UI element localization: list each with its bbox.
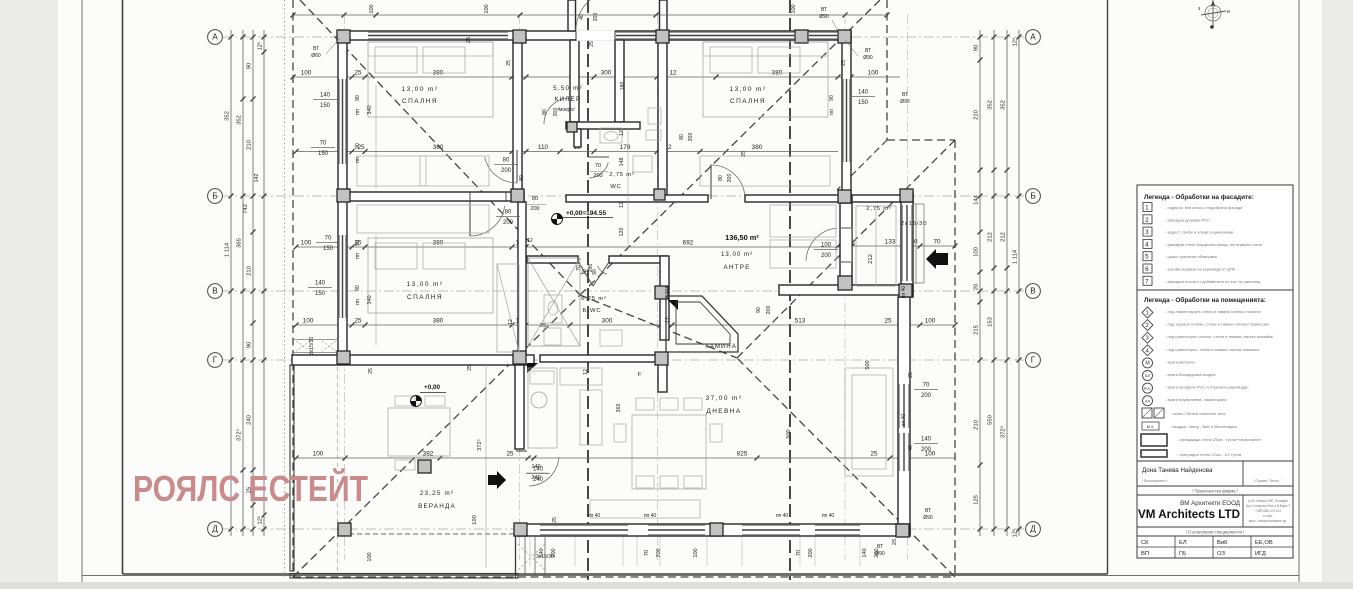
svg-text:12⁵: 12⁵	[257, 41, 264, 51]
svg-text:/ Проектантска фирма /: / Проектантска фирма /	[1192, 489, 1239, 494]
left dimension chains	[225, 30, 267, 536]
svg-text:Г: Г	[213, 356, 218, 365]
svg-text:100: 100	[791, 4, 797, 13]
section line vertical 2	[789, 0, 791, 580]
svg-text:340: 340	[367, 105, 373, 114]
svg-text:5,50 m²: 5,50 m²	[553, 85, 583, 92]
svg-text:140: 140	[531, 464, 540, 470]
level marker veranda	[411, 396, 422, 407]
roof ridge	[580, 295, 737, 358]
veranda inner dashed line	[337, 367, 339, 571]
svg-text:80: 80	[718, 175, 724, 181]
svg-text:пп 40: пп 40	[776, 513, 789, 519]
window living east 1	[899, 384, 909, 428]
svg-text:- врата алуминиева, ламинирана: - врата алуминиева, ламинирана	[1165, 397, 1227, 402]
svg-text:200: 200	[874, 548, 880, 557]
svg-text:+0,00: +0,00	[424, 384, 440, 391]
window bedroom2 top	[668, 32, 794, 39]
svg-text:В: В	[212, 287, 218, 296]
svg-text:СПАЛНЯ: СПАЛНЯ	[407, 294, 443, 301]
sheet bottom border	[82, 575, 1299, 577]
svg-text:СК: СК	[1141, 540, 1149, 546]
svg-text:380: 380	[752, 144, 763, 151]
column B4	[900, 189, 913, 202]
wall kiler left	[570, 40, 579, 122]
svg-text:13,00 m²: 13,00 m²	[721, 251, 753, 258]
door entrance top	[576, 0, 615, 30]
dining table living	[632, 415, 706, 489]
bottom grey band	[0, 582, 1353, 589]
grid bubble Г left	[208, 353, 223, 368]
door bedroom3	[470, 206, 505, 236]
right dimension chains	[974, 30, 1022, 538]
svg-text:1: 1	[1145, 205, 1150, 212]
svg-text:ВТ: ВТ	[821, 7, 827, 13]
grid centerlines horizontal	[222, 37, 1026, 529]
svg-text:- означ. Пятник осветено тяло: - означ. Пятник осветено тяло	[1170, 411, 1227, 416]
title block specialists caption	[1137, 527, 1293, 536]
column A1	[337, 30, 350, 43]
svg-text:- под теракол плочки, стени и: - под теракол плочки, стени и тавани /ла…	[1165, 322, 1269, 327]
svg-text:80: 80	[532, 196, 538, 202]
svg-text:70: 70	[644, 550, 650, 556]
svg-text:70: 70	[923, 383, 930, 389]
label bedroom2	[730, 86, 767, 105]
label veranda	[418, 490, 456, 510]
wall row V right horizontal	[779, 285, 913, 295]
window living south 4	[815, 525, 860, 535]
svg-text:3: 3	[1145, 336, 1149, 342]
svg-text:Легенда - Обработки на фасадит: Легенда - Обработки на фасадите:	[1144, 193, 1254, 201]
svg-text:80: 80	[519, 175, 525, 181]
small dims living east windows	[901, 286, 938, 453]
legend room item PVC	[1143, 383, 1250, 393]
column B3	[838, 190, 851, 203]
svg-text:пп 40: пп 40	[901, 414, 907, 427]
svg-text:200: 200	[921, 447, 932, 453]
svg-text:1: 1	[1145, 311, 1149, 317]
svg-text:25: 25	[540, 323, 546, 329]
svg-text:- цокъл гранитни облицовки: - цокъл гранитни облицовки	[1165, 254, 1217, 259]
label kiler	[553, 85, 583, 113]
legend symbol brick wall	[1141, 434, 1261, 446]
svg-text:ВТ: ВТ	[313, 46, 319, 52]
svg-text:150: 150	[318, 151, 329, 157]
svg-text:90: 90	[355, 143, 361, 149]
svg-text:12: 12	[583, 369, 589, 375]
svg-text:25: 25	[467, 365, 473, 371]
right grey margin	[1322, 0, 1353, 589]
svg-text:200: 200	[688, 133, 694, 142]
svg-text:70: 70	[320, 141, 327, 147]
svg-text:КИЛЕР: КИЛЕР	[555, 96, 582, 103]
column bottom left	[514, 523, 527, 536]
frame bottom border	[123, 573, 1108, 575]
window living east 2	[899, 433, 909, 471]
window bedroom1 left	[339, 79, 346, 164]
legend symbol partition wall	[1141, 450, 1242, 457]
svg-text:ул.В. Левски 15Б, Пловдив: ул.В. Левски 15Б, Пловдив	[1248, 499, 1288, 503]
door gap bedroom1	[514, 148, 521, 184]
svg-text:215: 215	[974, 324, 980, 335]
svg-text:210: 210	[247, 265, 253, 276]
svg-text:пп: пп	[355, 253, 361, 259]
svg-text:пп: пп	[829, 109, 835, 115]
svg-text:372⁵: 372⁵	[236, 428, 243, 441]
svg-text:212: 212	[988, 232, 994, 242]
wall antre east	[840, 203, 852, 284]
svg-text:13,00 m²: 13,00 m²	[407, 281, 444, 288]
svg-text:90: 90	[247, 62, 253, 69]
svg-text:5: 5	[1145, 254, 1150, 261]
svg-text:4: 4	[1145, 241, 1150, 248]
svg-text:150: 150	[320, 103, 331, 109]
section triangle F	[668, 300, 678, 310]
svg-text:352: 352	[225, 111, 231, 121]
svg-text:178: 178	[620, 144, 631, 151]
grid bubble А left	[208, 30, 223, 45]
svg-text:25: 25	[841, 60, 847, 66]
legend facade item 4	[1143, 239, 1262, 248]
svg-text:Б: Б	[212, 192, 217, 201]
wardrobe bedroom2	[700, 156, 830, 186]
wall right exterior upper	[842, 31, 851, 202]
svg-text:360: 360	[616, 404, 622, 413]
roof valley	[837, 140, 887, 190]
svg-text:- въздуш. отвор - ВиК и Вентил: - въздуш. отвор - ВиК и Вентилация	[1170, 424, 1237, 429]
steps left of kitchen	[292, 340, 338, 353]
svg-text:212: 212	[868, 254, 874, 264]
column G3	[655, 286, 668, 299]
svg-text:100: 100	[472, 514, 478, 525]
svg-text:80: 80	[679, 134, 685, 140]
svg-text:100: 100	[868, 70, 879, 77]
column B1	[337, 189, 350, 202]
dimension row 2	[296, 151, 838, 153]
svg-text:742: 742	[243, 204, 249, 214]
wall wc-top right	[658, 40, 667, 195]
svg-text:70: 70	[325, 236, 332, 242]
svg-text:70: 70	[796, 550, 802, 556]
svg-text:Д: Д	[212, 525, 218, 534]
wall bwc top right	[609, 256, 666, 263]
svg-text:70: 70	[933, 239, 941, 246]
svg-text:212: 212	[1001, 232, 1007, 242]
svg-text:210: 210	[974, 109, 980, 120]
svg-text:100: 100	[821, 243, 832, 249]
svg-text:- ограждащи стени 25см - тухла: - ограждащи стени 25см - тухла+термопане…	[1177, 437, 1261, 442]
svg-text:142: 142	[254, 174, 260, 183]
label living	[706, 395, 743, 415]
tv cabinet living	[590, 500, 700, 518]
bed bedroom3	[368, 238, 493, 313]
svg-text:1 114: 1 114	[225, 242, 231, 257]
roof diagonal hips	[293, 0, 955, 577]
svg-text:архч. специализирани пр.: архч. специализирани пр.	[1249, 519, 1287, 523]
svg-text:825: 825	[737, 451, 748, 458]
svg-text:- под ламип паркет, стени и та: - под ламип паркет, стени и тавани /лате…	[1165, 309, 1262, 314]
dimension row veranda	[296, 457, 955, 459]
svg-text:3x15/30: 3x15/30	[309, 337, 315, 356]
svg-text:25: 25	[466, 37, 472, 43]
svg-text:23,25 m²: 23,25 m²	[420, 490, 454, 497]
svg-text:140: 140	[862, 548, 868, 557]
svg-text:200: 200	[593, 173, 602, 179]
svg-text:ВиК: ВиК	[1217, 540, 1228, 546]
svg-text:12⁵: 12⁵	[1012, 528, 1019, 538]
svg-text:40: 40	[579, 14, 585, 20]
legend symbol double window	[1142, 408, 1227, 418]
legend facade item 2	[1143, 215, 1210, 224]
door gap antre east	[842, 228, 852, 262]
svg-text:120: 120	[619, 228, 625, 237]
svg-text:Г: Г	[1031, 356, 1036, 365]
legend facade item 6	[1143, 264, 1236, 273]
svg-text:100: 100	[313, 451, 324, 458]
svg-text:СПАЛНЯ: СПАЛНЯ	[402, 98, 438, 105]
svg-text:150: 150	[858, 100, 869, 106]
entrance porch wall left	[568, 0, 576, 31]
svg-text:2x15/30: 2x15/30	[901, 221, 928, 227]
svg-text:13,00 m²: 13,00 m²	[402, 86, 439, 93]
grid bubble Г right	[1026, 353, 1041, 368]
svg-text:25: 25	[354, 70, 362, 77]
wall top exterior row A	[338, 31, 851, 40]
wall left exterior	[338, 31, 347, 355]
svg-text:100: 100	[974, 246, 980, 257]
svg-text:25: 25	[892, 539, 898, 545]
svg-text:ВТ: ВТ	[902, 92, 908, 98]
svg-text:550: 550	[988, 414, 994, 425]
svg-text:PVC: PVC	[1144, 387, 1152, 391]
label antre	[721, 251, 753, 271]
svg-text:СПАЛНЯ: СПАЛНЯ	[730, 98, 766, 105]
door bedroom1	[485, 157, 517, 183]
svg-text:13,00 m²: 13,00 m²	[730, 86, 767, 93]
svg-text:240: 240	[247, 414, 253, 425]
svg-text:пп: пп	[355, 157, 361, 163]
top dimension line	[293, 14, 887, 16]
door bedroom2 from antre	[710, 165, 745, 194]
title block firm caption	[1137, 486, 1293, 495]
entrance door opening	[576, 30, 615, 41]
svg-text:352: 352	[1001, 100, 1007, 110]
fireplace kamina	[666, 296, 738, 352]
svg-text:ЕЛ: ЕЛ	[1179, 540, 1187, 546]
svg-text:340: 340	[367, 295, 373, 304]
svg-text:/мокро/: /мокро/	[557, 107, 575, 113]
svg-text:6,25 m²: 6,25 m²	[581, 296, 607, 302]
svg-text:12: 12	[619, 130, 625, 136]
label bedroom1	[402, 86, 439, 105]
svg-text:200: 200	[503, 220, 514, 226]
svg-text:12: 12	[665, 317, 671, 323]
svg-text:- водост. тръби и улуци поцинк: - водост. тръби и улуци поцинковани	[1165, 230, 1233, 235]
svg-text:70: 70	[576, 265, 582, 271]
svg-text:200: 200	[821, 253, 832, 259]
wall kitchen west	[515, 365, 524, 449]
svg-text:150: 150	[323, 246, 334, 252]
svg-text:Б-WC: Б-WC	[583, 308, 602, 314]
bed bedroom1	[368, 42, 493, 117]
svg-text:200: 200	[553, 108, 559, 117]
svg-text:- косови первази на керемиди о: - косови первази на керемиди от ДПК	[1165, 267, 1236, 272]
svg-text:25: 25	[908, 372, 914, 378]
window bedroom1 top	[368, 32, 508, 39]
svg-text:12⁵: 12⁵	[1012, 37, 1019, 47]
window living south 3	[742, 525, 800, 535]
svg-text:В: В	[1030, 287, 1036, 296]
legend facade item 1	[1143, 203, 1242, 212]
svg-text:208: 208	[665, 286, 671, 295]
svg-text:WC: WC	[610, 184, 621, 190]
compass rose north arrow	[1198, 0, 1230, 29]
svg-text:40: 40	[908, 445, 914, 451]
level marker main	[552, 214, 563, 225]
svg-text:25: 25	[506, 451, 514, 458]
svg-text:372⁵: 372⁵	[1000, 425, 1007, 438]
label bedroom3	[407, 281, 444, 301]
svg-text:153: 153	[988, 316, 994, 327]
legend room item АЛ	[1143, 396, 1228, 406]
legend room item 1	[1142, 307, 1262, 318]
svg-text:25: 25	[368, 368, 374, 374]
svg-text:25: 25	[884, 318, 892, 325]
svg-text:пп 40: пп 40	[822, 513, 835, 519]
svg-text:e-mail:: e-mail:	[1263, 514, 1273, 518]
svg-text:380: 380	[433, 144, 444, 151]
svg-text:200: 200	[727, 174, 733, 183]
roof outline dashed	[293, 0, 955, 577]
entrance arrow right side	[926, 249, 948, 269]
svg-text:80: 80	[505, 210, 512, 216]
svg-text:300: 300	[601, 70, 612, 77]
closet 275 shelves	[856, 206, 896, 286]
wardrobe bedroom3 right	[497, 264, 519, 352]
grid bubble В left	[208, 284, 223, 299]
svg-text:90: 90	[247, 341, 253, 348]
insulation triangle kitchen	[527, 363, 538, 373]
svg-text:200: 200	[808, 548, 814, 557]
svg-text:70: 70	[595, 163, 601, 169]
small dims center	[367, 41, 871, 568]
small dims bottom windows	[472, 464, 898, 566]
sofa living	[845, 368, 893, 476]
svg-text:500: 500	[786, 429, 792, 438]
entrance window sidelight	[616, 32, 656, 39]
wall bedroom1 right	[513, 40, 522, 192]
wall right exterior mid	[901, 192, 913, 297]
column wc	[654, 189, 665, 200]
legend room item 4	[1142, 345, 1260, 356]
legend panel box	[1137, 185, 1293, 290]
svg-text:200: 200	[588, 264, 594, 273]
section line vertical 1	[587, 0, 589, 580]
column V2 antre	[838, 276, 852, 290]
svg-text:500: 500	[865, 360, 871, 369]
wall bedroom1 bottom row B left	[338, 192, 524, 201]
dimension row top A	[293, 76, 900, 78]
svg-text:и: и	[1227, 9, 1230, 15]
svg-text:ВМ Архитекти ЕООД: ВМ Архитекти ЕООД	[1180, 500, 1241, 507]
drawing frame right border	[1107, 0, 1109, 574]
svg-text:ЕЕ,ОВ: ЕЕ,ОВ	[1255, 540, 1273, 546]
svg-text:ВТ: ВТ	[925, 508, 931, 514]
legend room item БЛ	[1143, 371, 1217, 381]
svg-text:ВЕРАНДА: ВЕРАНДА	[418, 503, 456, 510]
svg-text:Ø90: Ø90	[900, 99, 910, 105]
label wc top	[609, 172, 635, 190]
svg-text:ГБ: ГБ	[1179, 551, 1186, 557]
svg-text:692: 692	[683, 240, 694, 247]
svg-text:365: 365	[237, 237, 243, 248]
wall bwc top left	[527, 256, 578, 263]
svg-text:РОЯЛС ЕСТЕЙТ: РОЯЛС ЕСТЕЙТ	[133, 467, 368, 509]
svg-text:380: 380	[433, 318, 444, 325]
wall bwc right	[660, 256, 669, 340]
svg-text:25: 25	[589, 41, 595, 47]
svg-text:200: 200	[921, 393, 932, 399]
wall bedroom3 bottom row G and veranda top edge	[292, 355, 534, 365]
column B2	[511, 189, 524, 202]
svg-text:100: 100	[367, 552, 373, 561]
svg-text:А: А	[1030, 33, 1036, 42]
grid bubble Б right	[1026, 189, 1041, 204]
svg-text:- фасадна дограма PVC: - фасадна дограма PVC	[1165, 217, 1210, 222]
svg-text:140: 140	[539, 548, 545, 557]
window bedroom3 left	[339, 235, 346, 318]
svg-text:100: 100	[693, 548, 699, 557]
svg-text:392: 392	[423, 451, 434, 458]
legend rooms box	[1137, 290, 1293, 461]
svg-text:210: 210	[974, 419, 980, 430]
svg-text:- фасадни плочи от добавените: - фасадни плочи от добавените по кат. на…	[1165, 279, 1261, 284]
door wc top	[589, 162, 609, 178]
column bottom mid	[710, 523, 723, 536]
svg-text:2: 2	[1145, 323, 1149, 329]
svg-text:200: 200	[530, 206, 539, 212]
svg-text:25: 25	[741, 151, 747, 157]
svg-text:6: 6	[1145, 266, 1150, 273]
svg-text:20: 20	[974, 283, 980, 290]
svg-text:300: 300	[602, 318, 613, 325]
legend symbol M5 box	[1142, 422, 1237, 430]
svg-text:VM Architects LTD: VM Architects LTD	[1138, 507, 1240, 521]
svg-text:- врата метална: - врата метална	[1165, 359, 1195, 364]
wall antre north left	[566, 195, 708, 202]
left grey margin	[0, 0, 58, 589]
svg-text:150: 150	[315, 291, 326, 297]
svg-text:12: 12	[527, 238, 533, 244]
svg-text:240: 240	[531, 475, 540, 481]
svg-text:БЛ: БЛ	[1145, 374, 1150, 378]
wc fixtures	[600, 128, 622, 143]
label bwc	[581, 296, 607, 314]
grid bubble Д left	[208, 522, 223, 537]
svg-text:пп 40: пп 40	[588, 513, 601, 519]
svg-text:ДНЕВНА: ДНЕВНА	[706, 408, 741, 415]
svg-text:пп: пп	[355, 109, 361, 115]
svg-text:ВТ: ВТ	[865, 48, 871, 54]
veranda right edge	[515, 537, 517, 578]
svg-text:Ø90: Ø90	[863, 55, 873, 61]
svg-text:37,00 m²: 37,00 m²	[706, 395, 743, 402]
legend room item М	[1143, 358, 1196, 368]
svg-text:ВП: ВП	[1141, 551, 1149, 557]
window exterior mid	[902, 205, 912, 281]
svg-text:/ Съгласували специалности /: / Съгласували специалности /	[1186, 530, 1245, 535]
grid centerlines vertical	[345, 14, 908, 560]
